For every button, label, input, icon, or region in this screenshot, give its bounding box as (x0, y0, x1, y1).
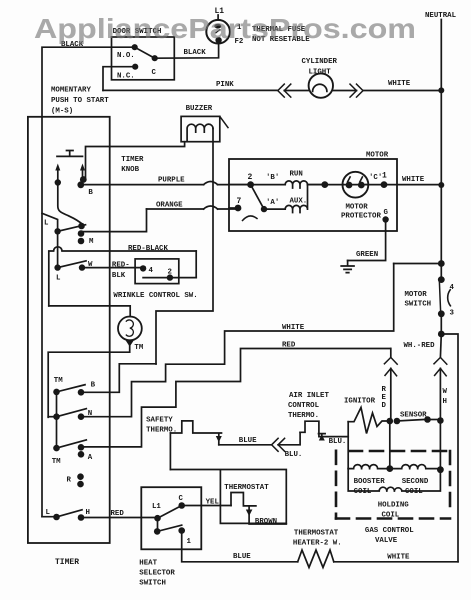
contact M dots (54, 228, 60, 234)
wire neutral rail to motor switch (440, 185, 442, 280)
heat selector switch box (141, 487, 201, 549)
wire W to wrinkle sw 4 (82, 267, 143, 269)
timer box outline (28, 117, 110, 543)
svg-text:A: A (88, 454, 93, 462)
svg-text:R: R (382, 386, 387, 394)
svg-text:IGNITOR: IGNITOR (344, 398, 376, 406)
thermostat contact bump (231, 493, 256, 506)
svg-text:SAFETY: SAFETY (146, 417, 173, 425)
svg-text:PINK: PINK (216, 81, 234, 89)
motor protector circle (325, 184, 343, 186)
door switch N.C. contact (132, 64, 138, 70)
wire rail to L contact (42, 516, 57, 518)
wire from N.C. to pink (103, 67, 135, 91)
buzzer box (181, 116, 220, 141)
svg-text:TM: TM (134, 344, 143, 352)
wrinkle contact 2 (167, 274, 173, 280)
svg-text:W: W (443, 388, 448, 396)
svg-text:(M-S): (M-S) (51, 108, 73, 116)
door switch arm N.O. to C (135, 47, 155, 58)
svg-text:MOMENTARY: MOMENTARY (51, 87, 91, 95)
wrinkle switch arm (143, 277, 170, 279)
svg-text:THERMOSTAT: THERMOSTAT (224, 484, 269, 492)
wh rail chevron (434, 357, 447, 364)
run winding coil (251, 181, 325, 188)
wire timer to TM motor top (49, 306, 130, 317)
svg-text:H: H (443, 398, 447, 406)
connector arrow BLU. (319, 434, 326, 437)
svg-text:BLUE: BLUE (233, 553, 251, 561)
svg-text:HEAT: HEAT (139, 560, 157, 568)
motor box (229, 159, 397, 231)
wh rail arrow (435, 368, 447, 375)
wire purple enters motor box (229, 184, 251, 186)
red rail chevron (384, 357, 397, 364)
svg-text:C: C (152, 69, 157, 77)
ground symbol (341, 261, 354, 273)
knob contact B dots (80, 176, 87, 183)
svg-text:C: C (179, 495, 184, 503)
air inlet control thermostat bump (300, 421, 348, 436)
svg-text:WRINKLE CONTROL SW.: WRINKLE CONTROL SW. (113, 292, 197, 300)
wire knob rail down with hook to M arm (58, 183, 84, 226)
wrinkle contact 4 (140, 265, 146, 271)
svg-text:HOLDING: HOLDING (378, 502, 410, 510)
svg-text:L: L (44, 220, 49, 228)
wire orange enters motor box (229, 207, 238, 209)
svg-text:MOTOR: MOTOR (366, 152, 389, 160)
svg-text:WH.-RED: WH.-RED (404, 342, 436, 350)
connector arrow on safety thermo wire (218, 434, 220, 445)
timer knob shaft symbol (57, 151, 83, 157)
svg-text:B: B (88, 189, 93, 197)
buzzer coil (187, 124, 213, 142)
thermostat box (170, 470, 286, 524)
wire M contact to ORANGE (81, 209, 147, 232)
TM motor squiggle (126, 320, 133, 336)
buzzer striker tick (220, 116, 228, 127)
svg-text:BLUE: BLUE (239, 437, 257, 445)
svg-text:AppliancePartsPros.com: AppliancePartsPros.com (34, 13, 416, 44)
svg-text:BUZZER: BUZZER (186, 105, 213, 113)
wire M rail to W (57, 231, 59, 267)
svg-text:GREEN: GREEN (356, 251, 378, 259)
svg-text:4: 4 (450, 284, 455, 292)
svg-text:MOTOR: MOTOR (346, 204, 369, 212)
timer motor TM circle (118, 317, 142, 341)
knob arrow right (82, 168, 84, 181)
svg-text:N.C.: N.C. (117, 73, 135, 81)
aux winding coil (264, 185, 308, 213)
svg-text:D: D (382, 402, 387, 410)
wire valve left rail (347, 422, 349, 469)
motor terminal 1 C (366, 184, 384, 186)
svg-text:BROWN: BROWN (255, 518, 277, 526)
protector contacts (343, 184, 366, 186)
door switch C contact (152, 55, 158, 61)
svg-text:GAS CONTROL: GAS CONTROL (365, 527, 414, 535)
wire hop orange over buzzer wire (204, 206, 218, 209)
motor A contact dot (261, 206, 267, 212)
wire light to chevron (333, 90, 357, 92)
wire rail jog to M contact (42, 213, 58, 231)
svg-text:CONTROL: CONTROL (288, 402, 320, 410)
svg-text:N.O.: N.O. (117, 52, 135, 60)
wire N-left to inner vertical (48, 416, 56, 418)
timer contact N (53, 413, 60, 420)
knob contact left dot (55, 179, 61, 185)
wire rail N-left to A-left (56, 417, 58, 448)
timer contact TM/A (53, 445, 60, 452)
svg-text:COIL: COIL (405, 488, 423, 496)
svg-text:SELECTOR: SELECTOR (139, 570, 175, 578)
svg-text:AUX.: AUX. (290, 198, 308, 206)
motor centrifugal arm 2 to A (251, 185, 264, 210)
svg-text:AIR INLET: AIR INLET (289, 392, 329, 400)
svg-text:TIMER: TIMER (121, 156, 144, 164)
junction booster/second (386, 465, 393, 472)
svg-text:BLU.: BLU. (285, 451, 303, 459)
svg-text:1: 1 (382, 172, 387, 181)
connector chevron on blue (272, 438, 285, 451)
svg-text:PURPLE: PURPLE (158, 177, 185, 185)
svg-text:BLACK: BLACK (184, 49, 207, 57)
wire rail B-left to N-left (56, 392, 58, 417)
svg-text:WHITE: WHITE (402, 176, 425, 184)
svg-text:VALVE: VALVE (375, 537, 398, 545)
svg-text:TM: TM (52, 458, 61, 466)
wire BLACK from door C to fuse (155, 44, 219, 59)
centrifugal actuator arc (243, 216, 258, 221)
wire red rail down to ignitor junction (390, 368, 392, 421)
svg-text:THERMO.: THERMO. (288, 412, 319, 420)
svg-text:2: 2 (168, 269, 172, 277)
junction neutral/pink (438, 87, 444, 93)
svg-text:'A': 'A' (266, 199, 279, 207)
wire wh rail down to sensor (439, 368, 441, 420)
wire thermostat to safety thermo (169, 433, 171, 470)
wire buzzer right lead down (156, 129, 213, 365)
svg-text:1: 1 (187, 538, 192, 546)
sensor element (387, 418, 394, 425)
connector chevron right on pink/white (350, 84, 363, 97)
svg-text:N: N (88, 410, 92, 418)
wire timer inner rail (41, 117, 43, 517)
contact W dots (54, 264, 60, 270)
wire B contact to buzzer staircase (81, 364, 156, 393)
svg-text:SWITCH: SWITCH (139, 580, 166, 588)
wire blue to air inlet thermo (278, 432, 300, 445)
wire step down to blue (219, 444, 272, 446)
heat selector arm L1-C (158, 506, 182, 519)
svg-text:PUSH TO START: PUSH TO START (51, 97, 109, 105)
junction second/wh (437, 466, 444, 473)
svg-text:BLK: BLK (112, 272, 126, 280)
thermostat heater resistor zigzag (298, 550, 334, 568)
connector chevron left on pink (278, 84, 291, 97)
svg-text:HEATER-2 W.: HEATER-2 W. (293, 540, 342, 548)
wire bypass to right rail (441, 334, 458, 562)
svg-text:G: G (384, 209, 389, 217)
svg-text:'C': 'C' (369, 174, 382, 182)
wire wrinkle 2 out (170, 277, 196, 279)
thermal fuse F2 circle (206, 20, 230, 44)
wire red rail to booster junction (389, 421, 391, 469)
junction at 334 (438, 331, 445, 338)
svg-text:BOOSTER: BOOSTER (354, 478, 386, 486)
knob arrow left (57, 168, 59, 183)
red rail arrow (385, 368, 397, 375)
safety thermostat contact bump (170, 421, 221, 433)
wire hop purple over buzzer wire (204, 182, 218, 185)
door switch N.O. contact (132, 44, 138, 50)
wire wh rail to second coil junction (439, 421, 441, 470)
svg-text:SENSOR: SENSOR (400, 412, 427, 420)
junction run/aux (321, 181, 328, 188)
svg-text:M: M (89, 238, 94, 246)
svg-text:4: 4 (149, 267, 154, 275)
door switch S1 box (112, 37, 175, 80)
svg-text:H: H (86, 509, 90, 517)
motor switch contact 3 (438, 310, 445, 317)
svg-text:WHITE: WHITE (388, 80, 411, 88)
svg-text:L: L (46, 509, 51, 517)
wire buzzer left lead to knob B contact (86, 142, 185, 180)
heat selector lower contacts (157, 518, 159, 531)
motor switch contact 4 (438, 276, 445, 283)
wire neutral rail top segment (440, 20, 442, 91)
wire neutral rail mid segment (440, 90, 442, 185)
svg-text:7: 7 (237, 197, 242, 206)
fuse top lead (217, 15, 219, 20)
svg-text:'B': 'B' (266, 174, 279, 182)
svg-text:SECOND: SECOND (402, 478, 429, 486)
svg-text:MOTOR: MOTOR (405, 291, 428, 299)
svg-text:RUN: RUN (290, 171, 303, 179)
wire red-black from wrinkle sw 2 across timer (49, 247, 196, 306)
svg-text:3: 3 (450, 310, 455, 318)
svg-text:BLU.: BLU. (329, 438, 347, 446)
svg-text:PROTECTOR: PROTECTOR (341, 213, 381, 221)
svg-text:TM: TM (54, 377, 63, 385)
fuse F2 terminal dots (214, 24, 221, 29)
wire BLUE bottom from heat selector 1 (182, 531, 298, 562)
wire wh rail down to chevron (439, 334, 442, 357)
ignitor element zigzag (348, 408, 390, 434)
contact W arm (58, 261, 86, 268)
brown connector arrow (246, 510, 253, 517)
fuse F2 internal tick (216, 30, 220, 33)
svg-text:2: 2 (248, 173, 253, 182)
svg-text:COIL: COIL (382, 512, 400, 520)
svg-text:L: L (56, 275, 61, 283)
svg-text:L1: L1 (152, 503, 161, 511)
wire TM motor bottom lead (126, 341, 134, 347)
gas control valve dashed box (336, 451, 450, 519)
wire neutral rail 3 to junction (440, 314, 442, 334)
svg-text:THERMOSTAT: THERMOSTAT (294, 530, 339, 538)
motor switch arm (439, 282, 440, 311)
svg-text:R: R (67, 477, 72, 485)
svg-text:TIMER: TIMER (55, 558, 79, 567)
svg-text:SWITCH: SWITCH (405, 301, 432, 309)
junction neutral/motor white (438, 182, 444, 188)
svg-text:CYLINDER: CYLINDER (302, 58, 338, 66)
wire pink to cylinder light (284, 90, 308, 92)
svg-text:WHITE: WHITE (387, 554, 410, 562)
wrinkle control switch box (135, 259, 179, 284)
svg-text:E: E (382, 394, 387, 402)
svg-text:B: B (91, 382, 96, 390)
svg-text:COIL: COIL (354, 488, 372, 496)
svg-text:KNOB: KNOB (121, 166, 139, 174)
contact M arm (58, 225, 86, 232)
